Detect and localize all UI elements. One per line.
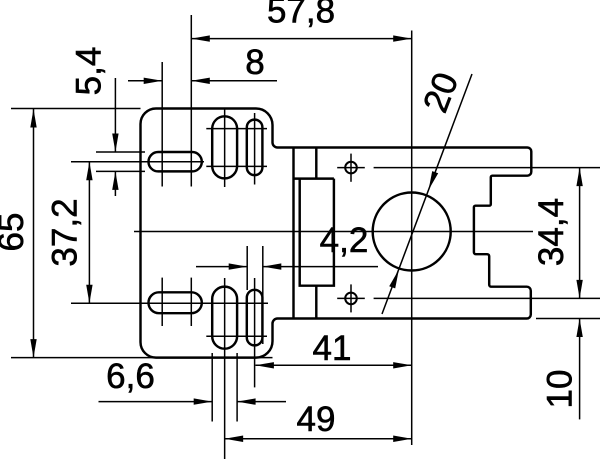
dimension 37,2 [88, 162, 90, 304]
arc-center line top ovals lower [206, 165, 267, 167]
svg-text:8: 8 [245, 43, 264, 82]
extension line top edge for dim 65 [11, 108, 141, 110]
extension line top hole center to right [374, 167, 600, 169]
interior neck line (lower short vertical) [315, 286, 317, 319]
extension line oval right edge for dim 6,6 [236, 353, 238, 422]
center line horizontal of part [134, 231, 533, 233]
top screw hole crosshair [345, 162, 357, 174]
arc-center line top ovals upper [206, 128, 267, 130]
slot upper-left (horizontal rounded slot) [149, 152, 202, 171]
bottom screw hole crosshair [345, 293, 357, 305]
svg-text:5,4: 5,4 [70, 47, 109, 96]
svg-text:49: 49 [297, 400, 336, 439]
extension line oval left edge for dim 6,6 [211, 353, 213, 422]
extension line x=191 lower segment at bottom slot [190, 278, 192, 326]
dimension 57,8 [191, 38, 411, 40]
vertical center line oval O1 [224, 109, 226, 187]
extension lines for dim 5,4 [96, 151, 145, 153]
dimension 65 [33, 109, 35, 358]
extension line x=162 lower segment at bottom slot [161, 278, 163, 326]
oval slot O2 top narrow [247, 120, 263, 176]
svg-text:4,2: 4,2 [320, 221, 369, 260]
oval slot O3 bottom wide [212, 287, 237, 349]
svg-text:65: 65 [0, 213, 31, 252]
extension line bottom edge for dims 65 and 10 [11, 357, 273, 359]
oval slot O4 bottom narrow [247, 290, 263, 346]
dimension 34,4 [579, 168, 581, 299]
oval slot O1 top wide [212, 116, 237, 178]
svg-text:6,6: 6,6 [106, 357, 155, 396]
extension line right plate bottom edge to right [536, 318, 600, 320]
svg-text:41: 41 [313, 329, 352, 368]
extension line x=191 for dims 57,8 and 8 [190, 15, 192, 187]
right plate outline with stepped right edge [278, 148, 532, 319]
center line of upper-left slot [71, 161, 204, 163]
arc-center line bottom ovals lower [206, 335, 267, 337]
dimension 5,4 [114, 78, 116, 196]
vertical center line oval O2 [254, 113, 256, 185]
vertical center line of big circle / extension for 57,8 41 49 [411, 31, 413, 446]
left plate outline [141, 109, 278, 358]
big circle dia 20 [373, 193, 451, 271]
dimension 49 [225, 438, 412, 440]
svg-text:57,8: 57,8 [267, 0, 335, 31]
extension line for dim 4,2 right [262, 246, 264, 344]
dimension 8 [128, 80, 277, 82]
extension line bottom hole center to right [374, 297, 600, 299]
slot lower-left (horizontal rounded slot) [149, 292, 202, 313]
svg-text:10: 10 [541, 370, 580, 409]
rectangular hole in neck [300, 179, 334, 286]
extension line x=162 for dim 8 [161, 62, 163, 187]
dimension 4,2 [196, 266, 378, 268]
dimension 41 [255, 364, 411, 366]
center line of lower-left slot [71, 302, 268, 304]
vertical center line oval O3 / extension for dim 49 [224, 278, 226, 459]
interior horizontal ledge at rectangular hole top [294, 177, 334, 179]
svg-text:37,2: 37,2 [46, 198, 85, 266]
interior neck line (long vertical) [292, 148, 294, 319]
vertical center line oval O4 / extension for dim 41 [254, 278, 256, 387]
leader line dia 20 through circle [382, 74, 472, 314]
svg-text:34,4: 34,4 [532, 198, 571, 266]
extension line for dim 4,2 left [246, 246, 248, 290]
interior neck line (upper short vertical) [315, 148, 317, 179]
dimension 6,6 [99, 401, 287, 403]
dimension 10 [579, 319, 581, 420]
